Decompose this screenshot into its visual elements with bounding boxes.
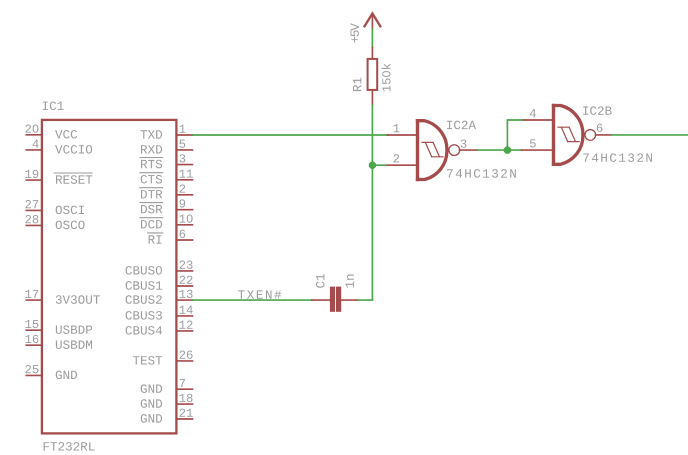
IC1 pin 13 CBUS2 xyxy=(126,290,193,304)
+5V supply symbol xyxy=(365,13,381,29)
C1 value 1n xyxy=(346,274,354,287)
IC1 pin 4 VCCIO xyxy=(26,140,92,154)
IC1 pin 17 3V3OUT xyxy=(25,290,99,304)
wire junction up to IC2B pin 4 xyxy=(507,120,523,150)
IC1 label xyxy=(43,101,64,110)
wire TXD to IC2A pin 1 xyxy=(193,134,388,136)
IC1 pin 21 GND xyxy=(141,409,193,423)
NAND gate IC2B 74HC132N xyxy=(554,106,596,165)
IC2B pin 4 xyxy=(523,109,551,120)
wire R1 down to node (vertical) xyxy=(371,105,373,300)
IC2A pin 1 xyxy=(387,124,415,135)
IC1 FT232RL body xyxy=(42,120,177,434)
IC2B label xyxy=(583,106,612,115)
wire IC2A out to IC2B pin 5 xyxy=(478,149,522,151)
wire CBUS2 to C1 (net TXEN#) xyxy=(193,299,312,301)
IC1 pin 12 CBUS4 xyxy=(126,321,193,335)
capacitor C1 xyxy=(312,287,358,312)
IC2B pin 6 xyxy=(596,124,612,135)
IC1 pin 15 USBDP xyxy=(25,320,92,334)
junction at IC2A output node xyxy=(504,147,511,154)
wire node to IC2A pin 2 xyxy=(372,164,387,166)
NAND gate IC2A 74HC132N xyxy=(418,121,460,180)
wire IC2B out to right edge xyxy=(612,134,688,136)
IC1 pin 22 CBUS1 xyxy=(126,276,193,290)
IC1 pin 14 CBUS3 xyxy=(126,306,193,320)
C1 label xyxy=(316,274,325,288)
IC1 pin 6 RI xyxy=(148,230,193,244)
IC1 pin 5 RXD xyxy=(141,140,192,154)
IC2A label xyxy=(447,121,476,130)
wire +5V to R1 xyxy=(371,29,373,48)
IC1 pin 2 DTR xyxy=(140,184,193,198)
R1 value 150k xyxy=(382,64,391,92)
IC2A pin 3 xyxy=(460,139,478,150)
IC1 pin 20 VCC xyxy=(25,124,77,138)
junction at R1 / IC2A pin 2 node xyxy=(369,162,376,169)
+5V label xyxy=(351,23,359,43)
IC2B value 74HC132N xyxy=(583,153,652,162)
IC1 pin 27 OSCI xyxy=(25,200,84,214)
IC1 pin 1 TXD xyxy=(140,125,192,139)
IC1 pin 25 GND xyxy=(25,365,77,379)
IC1 pin 18 GND xyxy=(141,394,193,408)
IC1 pin 26 TEST xyxy=(133,351,193,365)
IC1 pin 28 OSCO xyxy=(25,215,84,229)
IC1 pin 19 RESET xyxy=(25,170,92,184)
IC1 pin 16 USBDM xyxy=(25,335,92,349)
IC2A value 74HC132N xyxy=(447,169,516,178)
IC1 pin 9 DSR xyxy=(140,199,193,213)
IC1 pin 7 GND xyxy=(141,379,193,393)
IC1 pin 11 CTS xyxy=(140,170,193,184)
R1 label xyxy=(353,78,361,92)
wire C1 to vertical node wire xyxy=(358,299,373,301)
resistor R1 xyxy=(368,48,378,106)
IC1 value FT232RL xyxy=(44,442,95,451)
net label TXEN# xyxy=(238,290,281,298)
IC2B pin 5 xyxy=(522,139,552,150)
IC1 pin 3 RTS xyxy=(140,154,193,168)
IC1 pin 23 CBUS0 xyxy=(126,261,193,275)
IC1 pin 10 DCD xyxy=(140,214,193,228)
IC2A pin 2 xyxy=(387,154,415,165)
